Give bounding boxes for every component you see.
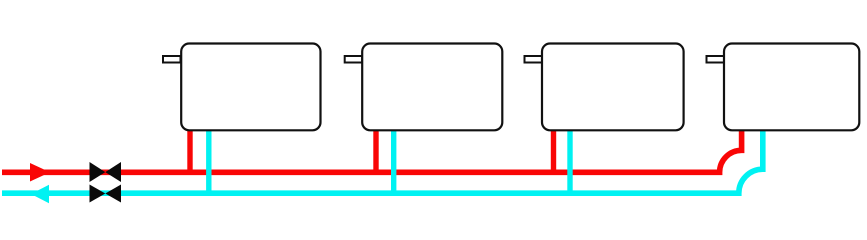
wire: cyan drop pipe radiator 2 (crosses red main) bbox=[391, 129, 396, 196]
radiator 1 body bbox=[181, 44, 320, 131]
radiator 3 valve tab bbox=[525, 56, 543, 63]
wire: cyan drop pipe radiator 3 (crosses red main) bbox=[567, 129, 572, 196]
radiator 2 valve tab bbox=[345, 56, 363, 63]
wire: red drop pipe radiator 2 bbox=[373, 129, 378, 175]
valve V1 on red supply line (black bowtie) bbox=[90, 162, 122, 182]
valve V2 on cyan return line (black bowtie) bbox=[90, 185, 122, 203]
return arrow (cyan, pointing left) bbox=[31, 185, 49, 203]
wire: red supply main with elbow up to radiator 4 bbox=[2, 129, 742, 172]
wire: red drop pipe radiator 1 bbox=[187, 129, 192, 175]
wire: cyan drop pipe radiator 1 (crosses red main) bbox=[206, 129, 211, 196]
radiator 4 body bbox=[724, 44, 859, 131]
radiator 1 valve tab bbox=[163, 56, 181, 63]
radiator 2 body bbox=[362, 44, 502, 131]
wire: cyan return main with elbow up to radiator 4 bbox=[2, 129, 763, 193]
radiator 3 body bbox=[542, 44, 684, 131]
flow arrow (red, pointing right) bbox=[30, 163, 50, 182]
radiator 4 valve tab bbox=[707, 56, 725, 63]
wire: red drop pipe radiator 3 bbox=[551, 129, 556, 175]
